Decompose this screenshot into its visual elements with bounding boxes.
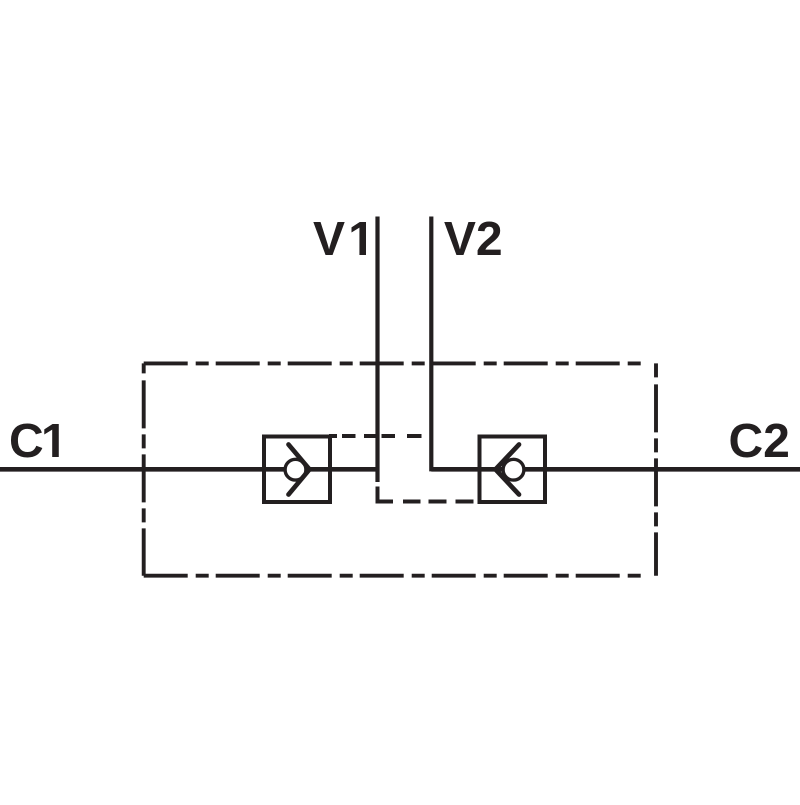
port label C2 <box>730 423 787 457</box>
check valve CV2 ball <box>503 459 524 480</box>
C2 flow line <box>431 467 800 472</box>
valve body boundary right edge <box>654 363 658 575</box>
port label V1 <box>313 222 366 255</box>
port line V1 (vertical) <box>375 217 379 483</box>
check valve CV2 box <box>480 437 546 503</box>
pilot line (dashed) from V1 to CV2: bottom run <box>378 487 474 502</box>
valve body boundary bottom edge <box>144 574 648 578</box>
port label V2 <box>444 221 500 255</box>
valve body boundary (dash-dot enclosure) top edge <box>144 361 648 365</box>
C1 flow line <box>0 467 378 472</box>
pilot line (dashed) from CV1 to V2: top run <box>329 434 422 438</box>
check valve CV2 seat <box>496 445 520 495</box>
check valve CV1 box <box>264 437 330 503</box>
port label C1 <box>11 423 59 457</box>
check valve CV1 seat <box>289 445 310 495</box>
port line V2 (vertical + elbow to CV2) <box>431 217 479 470</box>
valve body boundary left edge <box>142 363 146 575</box>
check valve CV1 ball <box>285 459 306 480</box>
